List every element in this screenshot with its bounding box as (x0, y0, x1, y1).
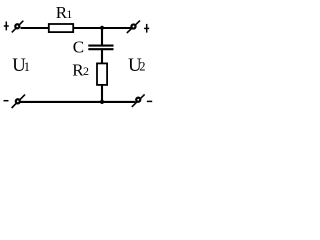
wire vertical branch upper (101, 28, 103, 46)
svg-text:2: 2 (139, 60, 145, 74)
svg-text:1: 1 (66, 7, 72, 21)
label R2 (72, 60, 89, 79)
wire top rail (21, 27, 132, 29)
wire vertical branch lower (101, 85, 103, 102)
plus sign top-right (144, 24, 149, 33)
terminal bottom-left (12, 95, 25, 108)
terminal top-left (12, 21, 23, 33)
svg-text:1: 1 (24, 60, 30, 74)
svg-text:C: C (73, 37, 84, 56)
minus sign bottom-right (147, 100, 152, 102)
junction top node (100, 26, 104, 30)
minus sign bottom-left (4, 100, 9, 102)
junction bottom node (100, 100, 104, 104)
label R1 (56, 3, 73, 22)
capacitor C plate top (88, 45, 113, 47)
svg-text:2: 2 (83, 64, 89, 78)
terminal top-right (127, 21, 140, 33)
wire bottom rail (21, 101, 136, 103)
plus sign top-left (4, 22, 9, 31)
terminal bottom-right (132, 94, 145, 107)
wire vertical branch middle (101, 49, 103, 64)
resistor R1 (49, 24, 73, 32)
label U2 (128, 55, 146, 76)
capacitor C plate bottom (88, 48, 113, 50)
resistor R2 (97, 63, 107, 85)
label U1 (12, 55, 30, 76)
